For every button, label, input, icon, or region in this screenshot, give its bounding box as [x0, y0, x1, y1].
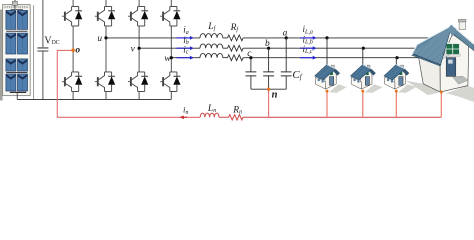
svg-text:u: u [97, 34, 102, 44]
label Ln [207, 104, 216, 114]
svg-text:Cf: Cf [292, 69, 302, 81]
resistor Rf phase c [228, 55, 244, 61]
node v [131, 44, 141, 54]
house 1 connection dot [326, 90, 329, 93]
IGBT S3 top leg2 [95, 6, 115, 26]
PV junction box [12, 0, 17, 5]
PV top bus wire [11, 5, 23, 10]
current arrow i_c [177, 45, 194, 60]
DC-link capacitor [37, 0, 48, 100]
tap to house 2 from line b [362, 47, 365, 65]
inverter leg 4 wire [170, 0, 172, 100]
house load 2 [351, 65, 383, 93]
current arrow i_La [300, 24, 317, 40]
house 2 connection dot [361, 90, 364, 93]
inductor Lf phase c [200, 53, 223, 57]
wire node n to neutral bus [268, 89, 270, 117]
IGBT S4 bottom leg2 [95, 72, 115, 92]
IGBT S6 bottom leg3 [128, 72, 148, 92]
green window [446, 43, 460, 54]
left wall [418, 56, 440, 92]
inverter leg 3 wire [138, 0, 140, 100]
phase line b [139, 47, 422, 49]
wire house 1 to neutral bus [326, 91, 328, 117]
big house load [406, 19, 474, 102]
gable wall [440, 34, 469, 92]
capacitor Cf phase a [281, 72, 292, 89]
IGBT S8 bottom leg4 [160, 72, 180, 92]
resistor Rf phase b [228, 45, 244, 51]
house load 1 [315, 65, 347, 93]
svg-text:Rf: Rf [230, 23, 240, 33]
node o [71, 46, 80, 56]
svg-text:VDC: VDC [44, 36, 59, 47]
right shadow [446, 86, 474, 102]
svg-text:o: o [75, 46, 80, 56]
current arrow i_n [179, 105, 188, 120]
door [446, 58, 456, 77]
svg-text:Lf: Lf [207, 22, 216, 32]
IGBT S7 top leg4 [160, 6, 180, 26]
capacitor Cf phase b [263, 72, 274, 89]
PV cells (2 cols x 4 rows) [6, 10, 28, 91]
current arrow i_Lc [300, 44, 317, 60]
node c and drop to capacitor [247, 49, 252, 72]
roof left slope [412, 25, 452, 66]
chimney [459, 20, 465, 30]
node u [97, 34, 107, 44]
node b and drop to capacitor [265, 39, 270, 72]
resistor Rn neutral [219, 115, 441, 120]
svg-text:a: a [283, 28, 288, 38]
left shadow [406, 81, 441, 96]
label Rf [230, 23, 240, 33]
node a and drop to capacitor [283, 28, 288, 72]
current arrow i_Lb [300, 35, 317, 51]
tap to house 3 from line c [395, 56, 398, 65]
inductor Ln neutral [200, 113, 219, 117]
PV array side edge [0, 10, 3, 101]
node n [267, 88, 278, 101]
svg-text:Ln: Ln [207, 104, 216, 114]
resistor Rf phase a [228, 35, 244, 41]
stoop [453, 76, 469, 84]
capacitor bottom bus [251, 88, 286, 90]
svg-text:v: v [131, 44, 136, 54]
label Rn [232, 105, 242, 115]
inverter leg 2 wire [105, 0, 107, 100]
svg-text:n: n [272, 89, 278, 100]
label Cf [292, 69, 302, 81]
neutral wire from node o [57, 50, 200, 117]
inductor Lf phase b [200, 44, 223, 48]
IGBT S1 top leg1 [62, 6, 82, 26]
PV bottom bus wire [10, 92, 26, 99]
PV mid-row bus bars [6, 31, 27, 72]
IGBT S2 bottom leg1 [62, 72, 82, 92]
current arrow i_a [177, 25, 194, 40]
current arrow i_b [177, 35, 194, 50]
svg-text:w: w [164, 54, 171, 64]
wire house 2 to neutral bus [362, 91, 364, 117]
inductor Lf phase a [200, 34, 223, 38]
roof right slope [452, 25, 474, 50]
svg-text:b: b [265, 39, 270, 49]
big house connection dot [440, 91, 443, 94]
tap to house 1 from line a [325, 36, 328, 65]
house load 3 [384, 65, 416, 93]
inverter leg 1 wire [72, 0, 74, 100]
wire house 3 to neutral bus [395, 91, 397, 117]
label V_DC [44, 36, 59, 47]
house 3 connection dot [395, 90, 398, 93]
IGBT S5 top leg3 [128, 6, 148, 26]
phase line a [106, 37, 430, 39]
capacitor Cf phase c [246, 72, 257, 89]
label Lf [207, 22, 216, 32]
wire big house to neutral bus [440, 92, 442, 117]
svg-text:Rn: Rn [232, 105, 242, 115]
PV array frame [3, 5, 34, 100]
phase line c [171, 57, 418, 59]
DC bottom rail [17, 99, 171, 101]
node w [164, 54, 173, 64]
svg-text:in: in [183, 105, 188, 116]
